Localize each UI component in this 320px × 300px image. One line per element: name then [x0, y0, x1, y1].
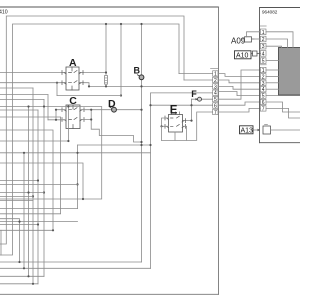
svg-text:6: 6 [214, 104, 217, 110]
wire drop to fuse [105, 24, 107, 75]
wire C to D to B riser [80, 109, 142, 111]
wire E bottom rail to pin7 [162, 112, 213, 140]
svg-text:A: A [69, 57, 77, 69]
harness box bottom edge [0, 293, 219, 295]
wire row y196.4 [0, 195, 33, 197]
wire row y230.3 [0, 229, 53, 231]
svg-text:A09: A09 [231, 36, 246, 45]
svg-text:1: 1 [214, 72, 217, 78]
svg-text:E: E [170, 104, 178, 116]
svg-text:5: 5 [262, 94, 265, 100]
wire E left drop to rail [161, 126, 163, 140]
connector strip pins 1-7 [211, 68, 219, 114]
wire weave vertical x77.5 [77, 145, 79, 209]
staircase wire pin7 [218, 108, 260, 112]
wire C pin1 feed with riser [56, 110, 66, 120]
wire bus to pin3 [89, 85, 213, 87]
connector A13 [254, 125, 271, 135]
left edge stub [0, 230, 2, 255]
svg-text:3: 3 [262, 81, 265, 87]
node dot D wire end [140, 109, 142, 111]
wire row y200.6 [0, 200, 33, 202]
wire row y221.6 [0, 221, 78, 223]
staircase wire pin3 [218, 86, 260, 89]
wire top route to connector pin 2 [0, 16, 184, 244]
wire E upper right pin [183, 120, 192, 122]
harness box right edge [218, 7, 220, 294]
wire E bottom pin [174, 132, 176, 140]
wire riser B [141, 24, 143, 262]
wire A lower feed down [56, 83, 58, 96]
svg-text:4: 4 [262, 87, 265, 93]
wire weave drop x38 [37, 110, 39, 284]
bottom row y268.3 [0, 267, 151, 269]
svg-text:1: 1 [262, 68, 265, 74]
wire ecu lower pin3 [266, 82, 279, 84]
wire A upper left [0, 72, 66, 74]
wire ecu top pin2 [266, 39, 288, 48]
fuse body [105, 76, 108, 85]
wire A lower right to bus [79, 83, 89, 87]
label A13 boxed [240, 126, 254, 135]
connector D [110, 107, 116, 112]
wire weave row y94.6 [0, 94, 48, 96]
svg-text:3: 3 [262, 44, 265, 50]
ecu lower strip pins 1-7 [260, 65, 266, 111]
wire weave drop x33 [32, 88, 34, 284]
wire ecu lower pin4 [266, 88, 279, 90]
relay C [62, 105, 84, 129]
wire ecu lower pin6 [266, 102, 300, 112]
staircase wire pin2 [218, 80, 260, 83]
svg-text:2: 2 [262, 37, 265, 43]
wire drop x121 [120, 24, 122, 96]
wire row y180.5 [0, 180, 38, 182]
wire ecu top pin5 [266, 60, 279, 62]
wire weave row y99.4 [0, 98, 44, 100]
wire A upper right [79, 72, 106, 74]
svg-text:2: 2 [262, 74, 265, 80]
wire ecu top pin1 [266, 32, 293, 48]
wire pin1 feed [179, 73, 213, 75]
svg-text:4: 4 [262, 51, 265, 57]
connector A10 [251, 51, 260, 56]
svg-text:3: 3 [214, 84, 217, 90]
svg-text:5: 5 [214, 97, 217, 103]
bottom row y283.8 [0, 283, 38, 285]
svg-text:410: 410 [0, 10, 8, 16]
node dots C feeds [55, 109, 57, 111]
svg-text:D: D [108, 98, 116, 110]
wire weave vertical x68.4 [67, 107, 69, 142]
staircase wire pin4 [218, 92, 260, 96]
wire F riser to E [191, 99, 193, 120]
staircase wire pin1 [218, 74, 260, 77]
ecu top strip pins 1-5 [260, 26, 266, 63]
svg-text:6: 6 [262, 100, 265, 106]
node dot E left [160, 125, 162, 127]
wire ecu top pin3 [266, 46, 282, 47]
svg-text:B: B [134, 66, 141, 76]
connector B [137, 75, 144, 80]
staircase wire pin6 [218, 102, 260, 105]
wire weave vertical x28.5 [28, 107, 30, 277]
node dots bottom rows [18, 261, 34, 285]
relay E [165, 112, 186, 132]
svg-text:1: 1 [262, 30, 265, 36]
wire E right lower pin [183, 126, 187, 140]
svg-text:964082: 964082 [262, 10, 278, 15]
header rule [0, 6, 219, 8]
connector F [196, 97, 202, 101]
wire ecu lower pin1 [266, 69, 279, 71]
control unit 964082 box [260, 8, 301, 143]
wire row y218.7 corner x19.5 [0, 219, 20, 262]
wire row y184.4 [0, 183, 78, 185]
wire A13 out [271, 129, 300, 131]
svg-text:4: 4 [214, 91, 217, 97]
bottom row y262 [0, 261, 142, 263]
svg-text:A13: A13 [241, 128, 254, 135]
svg-text:2: 2 [214, 78, 217, 84]
wire weave row y110 [0, 109, 38, 111]
connector A09 [243, 37, 255, 42]
wire A lower left [0, 82, 66, 84]
svg-text:F: F [191, 89, 197, 99]
label A10 boxed [235, 51, 252, 60]
wire weave loop y117-y213.8 [0, 117, 61, 214]
wire weave row y130 drop x53 [0, 130, 53, 230]
svg-text:C: C [69, 95, 77, 107]
wire top route to connector pin 1 [0, 24, 179, 255]
svg-text:5: 5 [262, 59, 265, 65]
wire weave drop x48 to C [47, 95, 49, 120]
wire ecu lower pin5 [266, 95, 300, 97]
bottom row y276.3 [0, 275, 44, 277]
node dot pin6 tap [149, 104, 151, 106]
wire channel row y145 [78, 144, 151, 146]
wire long riser to pin4 [151, 93, 213, 268]
wire row y224.5 [0, 224, 38, 226]
wire pin6 feed [151, 104, 213, 106]
wire fuse to bus [105, 84, 107, 86]
staircase wire pin5 [218, 70, 260, 99]
wire E left pins [162, 118, 169, 126]
wire pin2 feed [184, 79, 213, 81]
wire weave row y88 [0, 87, 33, 89]
wire weave drop x44 [43, 99, 45, 276]
wire C lower right route [80, 120, 142, 143]
wire weave row y152.8 [0, 152, 151, 154]
node dots weave [23, 105, 84, 200]
wire ecu lower pin2 [266, 75, 279, 77]
wire C pin2 feed [48, 119, 66, 121]
wire A09 to pin1 [247, 32, 261, 37]
node dots F riser [190, 104, 192, 106]
node dots top bus [56, 23, 143, 97]
wire weave vertical x24 [23, 153, 25, 268]
wire mid bus [57, 95, 121, 97]
wire ecu lower pin7 [266, 108, 300, 118]
wire A09 to pin2 [252, 38, 260, 40]
wire weave row y163 drop x83 [0, 163, 83, 199]
svg-text:A10: A10 [236, 53, 249, 60]
link D wire to C lower wire [90, 110, 92, 120]
wire F to pin5 [192, 98, 213, 100]
wire row y192.5 [0, 192, 44, 194]
relay A [62, 67, 83, 90]
svg-text:7: 7 [214, 110, 217, 116]
svg-text:7: 7 [262, 106, 265, 112]
node dots lower rows [18, 179, 54, 231]
ecu internal module [279, 48, 302, 96]
wire weave row y208.6 [0, 208, 78, 210]
node dot C route joins B riser [140, 141, 142, 143]
wire weave row y141 [0, 140, 68, 142]
wire weave loop y106.5-y199 [0, 107, 102, 200]
